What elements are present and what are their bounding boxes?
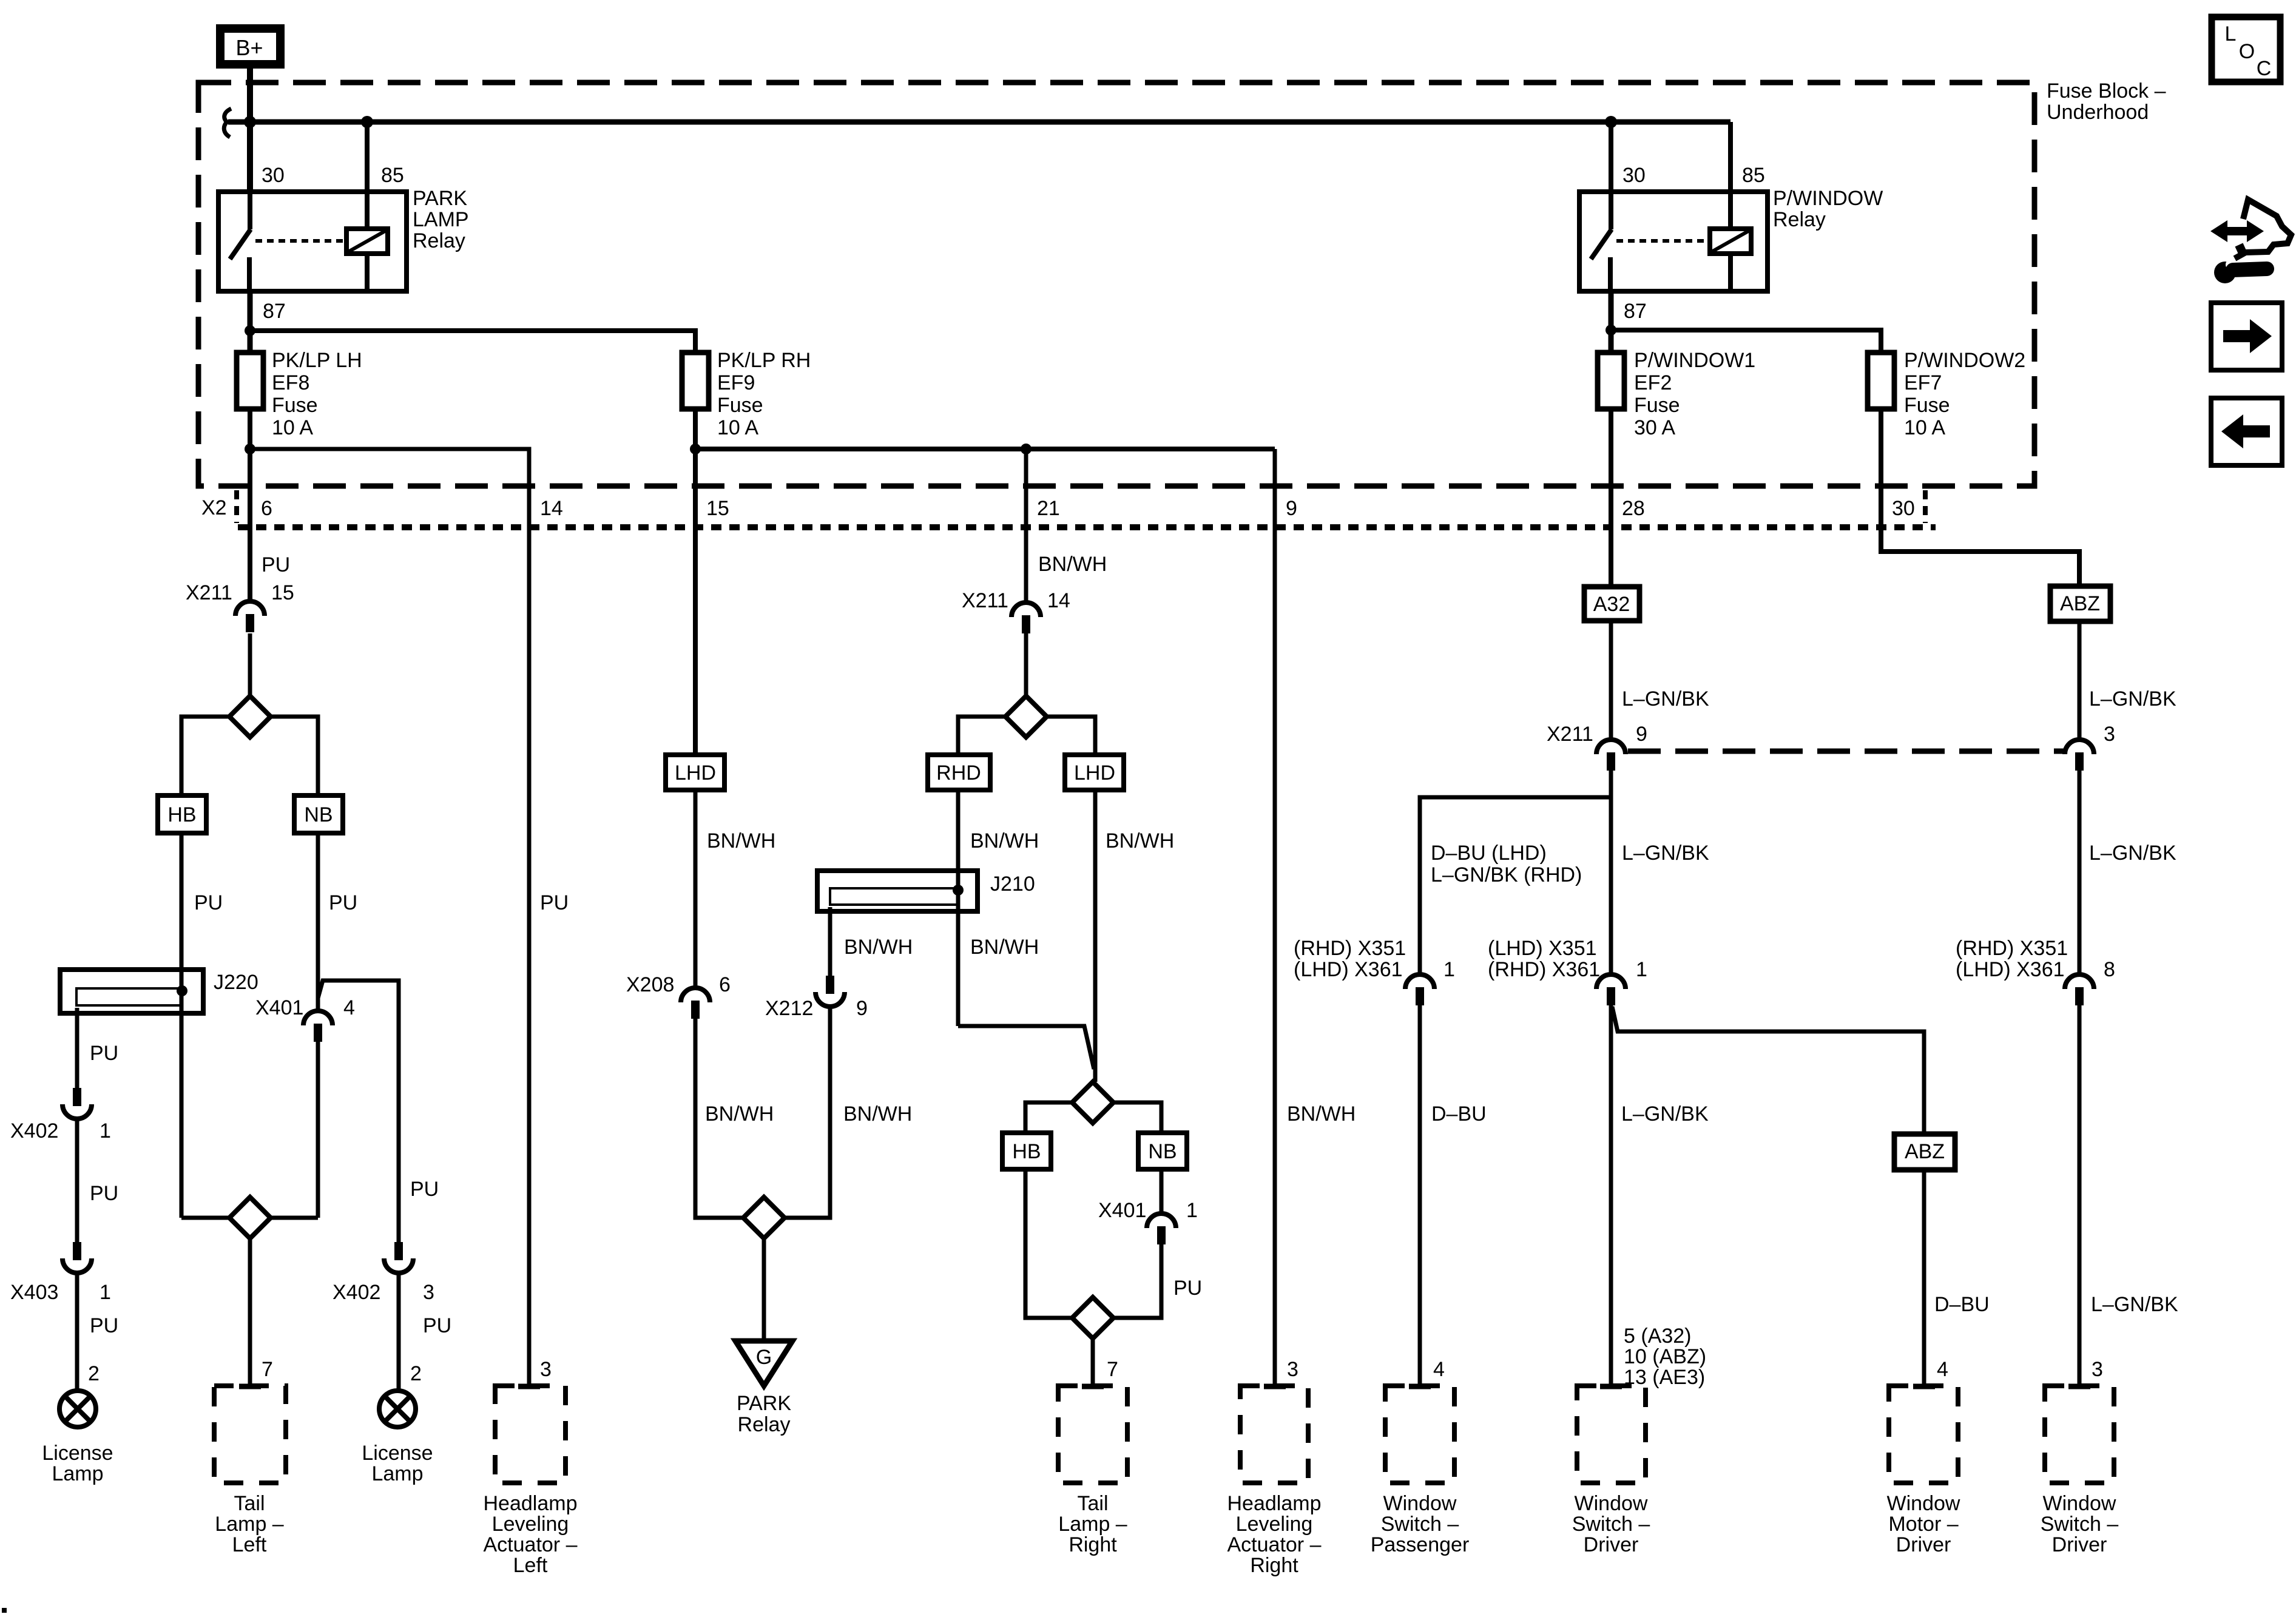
wire X212-9 down to park relay splice xyxy=(785,1007,830,1218)
svg-text:1: 1 xyxy=(100,1119,111,1143)
svg-text:Fuse: Fuse xyxy=(1904,394,1950,417)
wire splice to NB right xyxy=(1113,1102,1161,1133)
svg-text:Driver: Driver xyxy=(1584,1533,1639,1556)
svg-text:X401: X401 xyxy=(1098,1199,1146,1222)
svg-text:X403: X403 xyxy=(10,1281,58,1304)
svg-text:P/WINDOW: P/WINDOW xyxy=(1773,187,1883,210)
splice diamond tail lamp left xyxy=(229,1197,271,1238)
svg-text:RHD: RHD xyxy=(936,761,981,785)
component box Window Switch - Passenger xyxy=(1385,1386,1454,1483)
svg-text:30 A: 30 A xyxy=(1634,416,1675,439)
wire ABZ down to X211-3 xyxy=(2078,621,2082,738)
svg-text:Switch –: Switch – xyxy=(2041,1513,2119,1536)
svg-text:3: 3 xyxy=(2104,723,2115,746)
wire splice to LHD branch xyxy=(1047,717,1095,755)
svg-text:Fuse: Fuse xyxy=(1634,394,1680,417)
lamp symbol License Lamp left xyxy=(59,1391,96,1427)
svg-text:X211: X211 xyxy=(186,581,232,604)
junction dot below EF9 xyxy=(690,444,701,454)
svg-text:PU: PU xyxy=(90,1182,118,1205)
wire HB down through J220 xyxy=(180,833,184,1218)
wire branch to X2 pin 14 xyxy=(250,449,529,1386)
connector X2 bottom dotted line xyxy=(238,524,1936,530)
svg-text:J220: J220 xyxy=(214,971,258,994)
svg-text:PK/LP LH: PK/LP LH xyxy=(272,349,362,372)
svg-text:1: 1 xyxy=(1636,958,1647,981)
splice diamond park lamp left xyxy=(229,696,271,737)
wire X211-3 down to X351-8 xyxy=(2078,769,2082,973)
wire X211-14 down to splice xyxy=(1024,633,1028,696)
svg-text:PU: PU xyxy=(1173,1277,1202,1300)
wire NB down to X401 xyxy=(316,833,320,1010)
svg-text:(LHD) X361: (LHD) X361 xyxy=(1956,958,2065,981)
svg-text:Left: Left xyxy=(232,1533,267,1556)
svg-text:Headlamp: Headlamp xyxy=(1227,1492,1322,1515)
svg-text:B+: B+ xyxy=(235,35,263,60)
svg-text:Switch –: Switch – xyxy=(1381,1513,1459,1536)
fuse EF2 P/WINDOW1 30A xyxy=(1598,353,1624,409)
connector X212 pin 9 xyxy=(826,976,834,994)
svg-text:6: 6 xyxy=(261,497,272,520)
wire NB right down to X401 xyxy=(1160,1169,1164,1212)
svg-text:EF2: EF2 xyxy=(1634,371,1672,394)
svg-text:30: 30 xyxy=(262,164,285,187)
svg-text:3: 3 xyxy=(423,1281,434,1304)
svg-text:BN/WH: BN/WH xyxy=(1106,829,1174,852)
connector X208 pin 6 xyxy=(681,988,710,1002)
svg-text:Lamp: Lamp xyxy=(52,1462,103,1485)
wire X403-1 down to license lamp xyxy=(75,1273,79,1391)
svg-text:Fuse Block –: Fuse Block – xyxy=(2047,79,2166,103)
svg-text:PU: PU xyxy=(423,1314,451,1337)
svg-text:LHD: LHD xyxy=(1074,761,1115,785)
svg-text:EF7: EF7 xyxy=(1904,371,1942,394)
junction dot p/window relay 30 feed xyxy=(1605,116,1617,128)
svg-text:PK/LP RH: PK/LP RH xyxy=(717,349,811,372)
svg-text:C: C xyxy=(2257,57,2272,80)
svg-text:Window: Window xyxy=(2043,1492,2116,1515)
connector X401 pin 1 xyxy=(1147,1214,1176,1228)
svg-text:L–GN/BK: L–GN/BK xyxy=(2089,687,2176,711)
code box LHD left xyxy=(666,755,724,790)
wire X402-1 down xyxy=(75,1119,79,1242)
B+ battery terminal xyxy=(220,29,280,64)
wire splice down to tail lamp right xyxy=(1091,1338,1095,1386)
svg-text:License: License xyxy=(42,1442,113,1465)
svg-text:BN/WH: BN/WH xyxy=(844,936,913,959)
wire J210 leg down to X212 xyxy=(828,907,832,976)
wire A32 down to X211-9 xyxy=(1609,621,1613,738)
wire splice to HB branch xyxy=(181,717,229,795)
svg-text:ABZ: ABZ xyxy=(2060,592,2100,615)
svg-text:Relay: Relay xyxy=(413,229,465,252)
svg-text:Window: Window xyxy=(1575,1492,1648,1515)
wire to PARK LAMP relay pin 85 xyxy=(365,122,370,192)
junction dot 87 left xyxy=(245,325,255,336)
connector X211 pin 15 xyxy=(235,601,265,616)
code box HB right xyxy=(1002,1133,1051,1169)
wire splice to RHD branch xyxy=(958,717,1005,755)
wire X401 leg to splice right vertex xyxy=(271,1216,318,1220)
svg-text:10 A: 10 A xyxy=(1904,416,1945,439)
svg-text:PARK: PARK xyxy=(413,187,467,210)
svg-text:PU: PU xyxy=(194,891,223,914)
wire EF2 out down to X2 pin 28 xyxy=(1609,409,1613,587)
svg-text:Motor –: Motor – xyxy=(1888,1513,1958,1536)
svg-text:L–GN/BK: L–GN/BK xyxy=(2089,842,2176,865)
svg-text:10 A: 10 A xyxy=(272,416,313,439)
svg-text:BN/WH: BN/WH xyxy=(970,936,1039,959)
hook symbol at start of B+ bus xyxy=(224,109,231,137)
svg-text:30: 30 xyxy=(1622,164,1646,187)
wire corner down to X2 pin 9 xyxy=(1273,449,1277,1386)
svg-text:(RHD) X361: (RHD) X361 xyxy=(1488,958,1600,981)
connector X351/X361 driver pin 1 xyxy=(1596,974,1626,989)
wire EF8 out down to X2 pin 6 xyxy=(248,409,252,600)
connector X351/X361 passenger pin 1 xyxy=(1405,974,1434,989)
icon vehicle with double arrow and wrench xyxy=(2210,220,2264,242)
wire branch to passenger switch xyxy=(1420,797,1611,976)
svg-text:Lamp –: Lamp – xyxy=(215,1513,283,1536)
ground symbol G PARK Relay xyxy=(735,1341,792,1386)
svg-text:Driver: Driver xyxy=(1896,1533,1951,1556)
svg-text:3: 3 xyxy=(1287,1358,1298,1381)
svg-text:4: 4 xyxy=(1937,1358,1948,1381)
connector X401 pin 4 xyxy=(303,1011,333,1025)
svg-text:(RHD) X351: (RHD) X351 xyxy=(1956,937,2068,960)
wire p/window relay 87 down xyxy=(1609,291,1614,353)
svg-text:Fuse: Fuse xyxy=(717,394,763,417)
svg-text:Headlamp: Headlamp xyxy=(484,1492,578,1515)
svg-text:3: 3 xyxy=(2092,1358,2103,1381)
svg-text:Lamp –: Lamp – xyxy=(1058,1513,1127,1536)
svg-text:P/WINDOW2: P/WINDOW2 xyxy=(1904,349,2025,372)
svg-text:L–GN/BK: L–GN/BK xyxy=(1621,1102,1709,1126)
icon arrow left box xyxy=(2211,398,2282,465)
wire EF9 out down to X2 pin 15 xyxy=(693,409,698,755)
svg-text:1: 1 xyxy=(1443,958,1455,981)
svg-text:Fuse: Fuse xyxy=(272,394,318,417)
svg-text:5 (A32): 5 (A32) xyxy=(1624,1325,1692,1348)
svg-text:7: 7 xyxy=(1107,1358,1118,1381)
wire park relay 87 down xyxy=(248,291,253,353)
svg-text:Switch –: Switch – xyxy=(1572,1513,1650,1536)
svg-text:8: 8 xyxy=(2104,958,2115,981)
wire splice to NB branch xyxy=(271,717,318,795)
junction dot park relay coil feed xyxy=(361,116,373,128)
svg-text:P/WINDOW1: P/WINDOW1 xyxy=(1634,349,1755,372)
svg-text:X402: X402 xyxy=(10,1119,58,1143)
wire down to X2 pin 21 xyxy=(1024,449,1028,601)
wire J220 left leg down xyxy=(75,1008,79,1088)
svg-text:Leveling: Leveling xyxy=(492,1513,569,1536)
wire HB right down xyxy=(1025,1169,1072,1318)
svg-text:Leveling: Leveling xyxy=(1236,1513,1313,1536)
svg-text:LAMP: LAMP xyxy=(413,208,469,231)
svg-text:3: 3 xyxy=(540,1358,552,1381)
wire X402-3 down to license lamp xyxy=(397,1273,401,1391)
wire branch driver to ABZ window motor xyxy=(1612,1007,1924,1134)
component box Window Switch - Driver xyxy=(1577,1386,1646,1483)
connector X2 left tick mark xyxy=(234,490,239,523)
svg-text:PU: PU xyxy=(90,1314,118,1337)
wire splice to HB right xyxy=(1025,1102,1072,1133)
splice diamond tail lamp right bottom xyxy=(1072,1297,1113,1338)
svg-text:O: O xyxy=(2239,40,2255,63)
svg-text:87: 87 xyxy=(263,300,286,323)
svg-text:Passenger: Passenger xyxy=(1371,1533,1470,1556)
wire 87 feed to EF7 fuse xyxy=(1611,330,1881,353)
svg-text:Driver: Driver xyxy=(2052,1533,2107,1556)
wire X351-8 down to window switch driver xyxy=(2078,1005,2082,1386)
svg-text:(LHD) X351: (LHD) X351 xyxy=(1488,937,1597,960)
connector X351/X361 pin 8 xyxy=(2065,974,2094,989)
svg-text:21: 21 xyxy=(1037,497,1060,520)
svg-text:L–GN/BK: L–GN/BK xyxy=(1622,842,1709,865)
svg-text:D–BU: D–BU xyxy=(1431,1102,1487,1126)
component box Window Switch - Driver right xyxy=(2045,1386,2114,1483)
component box Headlamp Leveling Actuator - Right xyxy=(1240,1386,1308,1483)
connector X402 pin 1 xyxy=(73,1088,81,1106)
svg-text:L: L xyxy=(2225,22,2237,46)
svg-text:X208: X208 xyxy=(626,973,674,996)
svg-text:1: 1 xyxy=(1186,1199,1198,1222)
code box HB left xyxy=(158,795,206,833)
svg-text:Actuator –: Actuator – xyxy=(484,1533,578,1556)
wire top B+ bus xyxy=(228,120,1730,125)
svg-text:D–BU: D–BU xyxy=(1934,1293,1990,1316)
wire ABZ down to window motor xyxy=(1922,1170,1926,1386)
svg-text:HB: HB xyxy=(1012,1140,1041,1163)
junction dot pin 21 branch xyxy=(1021,444,1032,454)
svg-text:Actuator –: Actuator – xyxy=(1227,1533,1322,1556)
code box NB right xyxy=(1138,1133,1187,1169)
junction dot below EF8 xyxy=(245,444,255,454)
junction J210 splice pack xyxy=(817,871,977,911)
icon LOC box xyxy=(2212,17,2280,82)
svg-text:X401: X401 xyxy=(255,996,303,1019)
svg-text:PU: PU xyxy=(540,891,569,914)
svg-text:BN/WH: BN/WH xyxy=(843,1102,912,1126)
svg-text:Window: Window xyxy=(1887,1492,1960,1515)
wire splice down to tail lamp left xyxy=(248,1238,252,1386)
fuse EF8 PK/LP LH 10A xyxy=(237,353,263,409)
junction J220 splice pack xyxy=(60,970,203,1013)
code box ABZ right xyxy=(2050,586,2110,621)
svg-text:10 A: 10 A xyxy=(717,416,758,439)
svg-text:BN/WH: BN/WH xyxy=(1038,553,1107,576)
svg-text:28: 28 xyxy=(1622,497,1645,520)
wire branch EF9 to pins 21 and 9 xyxy=(695,447,1275,451)
svg-text:BN/WH: BN/WH xyxy=(705,1102,774,1126)
junction dot J210 xyxy=(953,885,964,896)
wire driver down to window switch xyxy=(1609,1005,1613,1386)
wire passenger down to window switch xyxy=(1418,1005,1422,1386)
svg-text:Tail: Tail xyxy=(1077,1492,1108,1515)
svg-text:Lamp: Lamp xyxy=(371,1462,423,1485)
dashed line X211 to X211-3 xyxy=(1628,749,2064,754)
svg-text:PU: PU xyxy=(262,553,290,576)
svg-text:9: 9 xyxy=(1286,497,1297,520)
svg-text:Window: Window xyxy=(1383,1492,1457,1515)
Fuse Block - Underhood dashed border xyxy=(198,83,2034,486)
wire RHD down through J210 xyxy=(956,790,961,1026)
svg-text:PU: PU xyxy=(90,1042,118,1065)
svg-text:ABZ: ABZ xyxy=(1905,1140,1945,1163)
code box RHD xyxy=(928,755,990,790)
connector X402 pin 3 xyxy=(394,1242,403,1260)
wire LHD down to X208 xyxy=(694,790,698,987)
svg-text:4: 4 xyxy=(343,996,355,1019)
svg-text:HB: HB xyxy=(167,803,196,826)
wire 87 feed to EF9 fuse xyxy=(250,331,695,353)
svg-text:(LHD) X361: (LHD) X361 xyxy=(1294,958,1403,981)
connector X403 pin 1 xyxy=(73,1242,81,1260)
page dot bottom left xyxy=(2,1608,7,1613)
svg-text:NB: NB xyxy=(1148,1140,1177,1163)
connector X211 pin 9 xyxy=(1596,740,1626,754)
code box A32 xyxy=(1584,587,1639,621)
svg-text:Left: Left xyxy=(513,1554,548,1577)
svg-text:6: 6 xyxy=(719,973,731,996)
code box LHD right xyxy=(1065,755,1124,790)
splice diamond tail lamp right top xyxy=(1072,1082,1113,1123)
svg-text:EF8: EF8 xyxy=(272,371,309,394)
svg-text:2: 2 xyxy=(410,1362,422,1385)
svg-text:13 (AE3): 13 (AE3) xyxy=(1624,1366,1705,1389)
component box Headlamp Leveling Actuator - Left xyxy=(495,1386,566,1483)
wire X208 leg to splice left vertex xyxy=(181,1216,229,1220)
wire X208-6 down to park relay splice xyxy=(695,1019,743,1218)
wire RHD to tail lamp right splice xyxy=(958,1026,1094,1069)
component box Tail Lamp - Right xyxy=(1058,1386,1127,1483)
svg-text:Relay: Relay xyxy=(738,1413,791,1436)
svg-text:A32: A32 xyxy=(1593,593,1630,616)
svg-text:Underhood: Underhood xyxy=(2047,101,2149,124)
svg-text:10 (ABZ): 10 (ABZ) xyxy=(1624,1345,1706,1368)
wire B+ down to relay 30 xyxy=(247,64,253,192)
svg-text:License: License xyxy=(362,1442,433,1465)
splice diamond park relay ground xyxy=(743,1197,785,1238)
svg-text:X211: X211 xyxy=(962,589,1008,612)
svg-text:15: 15 xyxy=(271,581,294,604)
svg-text:9: 9 xyxy=(856,997,868,1020)
svg-text:PU: PU xyxy=(329,891,357,914)
code box NB left xyxy=(294,795,343,833)
svg-text:Right: Right xyxy=(1250,1554,1298,1577)
svg-text:85: 85 xyxy=(381,164,404,187)
component box Tail Lamp - Left xyxy=(214,1386,286,1483)
relay PARK LAMP Relay xyxy=(218,192,407,291)
splice diamond RHD/LHD xyxy=(1005,696,1047,737)
junction dot 87 right xyxy=(1606,325,1616,336)
svg-text:L–GN/BK (RHD): L–GN/BK (RHD) xyxy=(1431,863,1582,886)
wire splice down to ground xyxy=(762,1238,766,1341)
svg-text:PU: PU xyxy=(410,1178,439,1201)
wire EF7 out down through X2 pin 30 to ABZ xyxy=(1881,409,2079,586)
connector X211 pin 14 xyxy=(1011,603,1041,617)
svg-text:L–GN/BK: L–GN/BK xyxy=(1622,687,1709,711)
svg-text:87: 87 xyxy=(1624,300,1647,323)
svg-text:J210: J210 xyxy=(990,873,1035,896)
icon arrow right box xyxy=(2211,303,2282,370)
svg-text:85: 85 xyxy=(1742,164,1765,187)
junction dot B+ / relay30 xyxy=(244,116,256,128)
wire to P/WINDOW relay pin 30 xyxy=(1609,122,1613,192)
svg-text:2: 2 xyxy=(88,1362,100,1385)
svg-text:X2: X2 xyxy=(201,496,227,519)
svg-text:Relay: Relay xyxy=(1773,208,1826,231)
svg-text:X212: X212 xyxy=(765,997,813,1020)
svg-text:LHD: LHD xyxy=(675,761,716,785)
svg-text:9: 9 xyxy=(1636,723,1647,746)
svg-text:7: 7 xyxy=(262,1358,273,1381)
svg-text:EF9: EF9 xyxy=(717,371,755,394)
svg-text:14: 14 xyxy=(1047,589,1070,612)
svg-text:PARK: PARK xyxy=(737,1392,791,1415)
wire X401-1 down to splice xyxy=(1113,1244,1161,1318)
svg-text:15: 15 xyxy=(706,497,729,520)
fuse EF7 P/WINDOW2 10A xyxy=(1868,353,1894,409)
wire X401-4 down to splice xyxy=(316,1042,320,1218)
svg-text:X211: X211 xyxy=(1547,723,1593,746)
svg-text:14: 14 xyxy=(540,497,563,520)
wire X211-9 down to driver branch xyxy=(1609,769,1613,976)
wire branch NB to right license lamp xyxy=(318,981,399,1242)
svg-text:4: 4 xyxy=(1433,1358,1445,1381)
svg-text:30: 30 xyxy=(1892,497,1915,520)
lamp symbol License Lamp right xyxy=(379,1391,416,1427)
svg-text:(RHD) X351: (RHD) X351 xyxy=(1294,937,1406,960)
svg-text:BN/WH: BN/WH xyxy=(970,829,1039,852)
wire X211-15 down to splice xyxy=(248,633,252,696)
wire LHD down to tail lamp right splice xyxy=(1093,790,1098,1082)
relay P/WINDOW Relay xyxy=(1579,192,1768,291)
svg-text:NB: NB xyxy=(304,803,333,826)
svg-text:Tail: Tail xyxy=(234,1492,265,1515)
svg-text:G: G xyxy=(756,1346,772,1369)
wire corner to P/WINDOW relay pin 85 xyxy=(1728,122,1733,192)
svg-text:BN/WH: BN/WH xyxy=(1287,1102,1356,1126)
component box Window Motor - Driver xyxy=(1889,1386,1958,1483)
svg-text:D–BU (LHD): D–BU (LHD) xyxy=(1431,842,1547,865)
fuse EF9 PK/LP RH 10A xyxy=(682,353,709,409)
svg-text:1: 1 xyxy=(100,1281,111,1304)
svg-text:L–GN/BK: L–GN/BK xyxy=(2091,1293,2178,1316)
connector X211 pin 3 xyxy=(2065,740,2094,754)
svg-text:X402: X402 xyxy=(333,1281,380,1304)
connector X2 right tick mark xyxy=(1923,490,1928,523)
junction dot J220 xyxy=(177,985,187,996)
svg-text:BN/WH: BN/WH xyxy=(707,829,775,852)
svg-text:Right: Right xyxy=(1069,1533,1117,1556)
code box ABZ window motor xyxy=(1894,1134,1955,1170)
